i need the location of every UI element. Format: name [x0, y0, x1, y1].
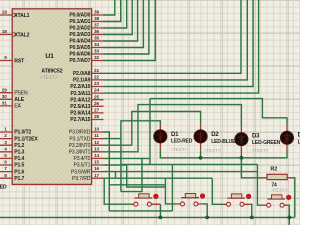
svg-text:30: 30: [2, 94, 8, 100]
svg-text:33: 33: [94, 49, 100, 55]
svg-text:<TEXT>: <TEXT>: [170, 147, 187, 153]
svg-text:25: 25: [94, 94, 100, 100]
svg-text:P1.7: P1.7: [14, 176, 24, 182]
svg-text:<TEXT>: <TEXT>: [252, 148, 269, 154]
svg-text:PSEN: PSEN: [14, 90, 28, 96]
svg-text:P2.4/A12: P2.4/A12: [70, 97, 90, 103]
svg-text:P2.2/A10: P2.2/A10: [70, 84, 90, 90]
svg-text:28: 28: [94, 114, 100, 120]
svg-text:<TEXT>: <TEXT>: [204, 148, 221, 154]
svg-text:P0.3/AD3: P0.3/AD3: [69, 32, 90, 38]
svg-text:P3.3/INT1: P3.3/INT1: [69, 150, 91, 156]
svg-text:10: 10: [94, 127, 100, 133]
svg-text:16: 16: [94, 166, 100, 172]
svg-text:11: 11: [94, 133, 99, 139]
svg-text:R2: R2: [270, 167, 277, 173]
svg-text:P3.2/INT0: P3.2/INT0: [69, 143, 91, 149]
svg-text:P0.4/AD4: P0.4/AD4: [69, 39, 90, 45]
svg-text:LED: LED: [298, 140, 300, 146]
svg-text:D4: D4: [298, 132, 300, 138]
svg-text:15: 15: [94, 160, 100, 166]
svg-text:P1.5: P1.5: [14, 163, 24, 169]
svg-text:39: 39: [94, 10, 100, 16]
svg-text:22: 22: [94, 75, 100, 81]
svg-text:P0.2/AD2: P0.2/AD2: [69, 26, 90, 32]
svg-text:P3.7/RD: P3.7/RD: [72, 176, 91, 182]
svg-text:D2: D2: [211, 132, 219, 138]
svg-text:P2.3/A11: P2.3/A11: [71, 91, 91, 97]
svg-text:35: 35: [94, 36, 100, 42]
svg-text:38: 38: [94, 16, 100, 22]
svg-text:P3.5/T1: P3.5/T1: [74, 163, 91, 169]
svg-text:XTAL2: XTAL2: [14, 32, 29, 38]
svg-text:18: 18: [2, 29, 8, 35]
svg-text:P0.1/AD1: P0.1/AD1: [69, 19, 90, 25]
svg-text:P1.6: P1.6: [14, 169, 24, 175]
svg-text:12: 12: [94, 140, 100, 146]
svg-text:P1.2: P1.2: [14, 143, 24, 149]
svg-text:D3: D3: [252, 133, 260, 139]
svg-text:P0.0/AD0: P0.0/AD0: [69, 13, 90, 19]
svg-text:LED-GREEN: LED-GREEN: [252, 140, 281, 146]
svg-text:13: 13: [94, 146, 100, 152]
svg-text:P3.6/WR: P3.6/WR: [71, 169, 91, 175]
svg-text:P0.5/AD5: P0.5/AD5: [69, 45, 90, 51]
svg-text:EA: EA: [14, 104, 21, 110]
svg-text:LED-BLUE: LED-BLUE: [211, 139, 236, 145]
svg-text:RST: RST: [14, 58, 25, 64]
svg-text:P2.0/A8: P2.0/A8: [73, 71, 91, 77]
svg-text:14: 14: [94, 153, 100, 159]
svg-text:P2.6/A14: P2.6/A14: [70, 111, 90, 117]
svg-text:LED-RED: LED-RED: [171, 139, 193, 145]
svg-text:29: 29: [2, 87, 8, 93]
svg-text:P2.5/A13: P2.5/A13: [70, 104, 90, 110]
svg-text:17: 17: [94, 173, 100, 179]
svg-text:<TEXT>: <TEXT>: [40, 75, 58, 81]
svg-text:P2.1/A9: P2.1/A9: [73, 78, 91, 84]
svg-text:P3.4/T0: P3.4/T0: [74, 156, 91, 162]
svg-text:19: 19: [2, 10, 8, 16]
svg-text:P1.4: P1.4: [14, 156, 24, 162]
svg-text:RED: RED: [0, 184, 7, 190]
svg-text:P0.6/AD6: P0.6/AD6: [69, 52, 90, 58]
svg-text:XTAL1: XTAL1: [14, 13, 29, 19]
svg-text:24: 24: [94, 88, 100, 94]
svg-text:26: 26: [94, 101, 100, 107]
svg-text:31: 31: [2, 101, 8, 107]
svg-text:21: 21: [94, 68, 100, 74]
svg-text:32: 32: [94, 55, 100, 61]
svg-text:36: 36: [94, 29, 100, 35]
svg-text:P0.7/AD7: P0.7/AD7: [69, 58, 90, 64]
svg-text:P3.1/TXD: P3.1/TXD: [69, 136, 90, 142]
svg-text:U1: U1: [45, 53, 54, 60]
svg-text:34: 34: [94, 42, 100, 48]
svg-text:ALE: ALE: [14, 97, 24, 103]
svg-text:P1.0/T2: P1.0/T2: [14, 130, 31, 136]
svg-text:P3.0/RXD: P3.0/RXD: [69, 130, 91, 136]
svg-text:P1.3: P1.3: [14, 150, 24, 156]
svg-text:37: 37: [94, 23, 100, 29]
svg-text:<TEXT>: <TEXT>: [271, 188, 288, 193]
svg-text:23: 23: [94, 81, 100, 87]
svg-text:27: 27: [94, 108, 100, 114]
svg-text:P1.1/T2EX: P1.1/T2EX: [14, 136, 38, 142]
svg-text:D1: D1: [171, 132, 179, 138]
svg-text:P2.7/A15: P2.7/A15: [70, 117, 90, 123]
svg-text:AT89C52: AT89C52: [41, 68, 62, 74]
